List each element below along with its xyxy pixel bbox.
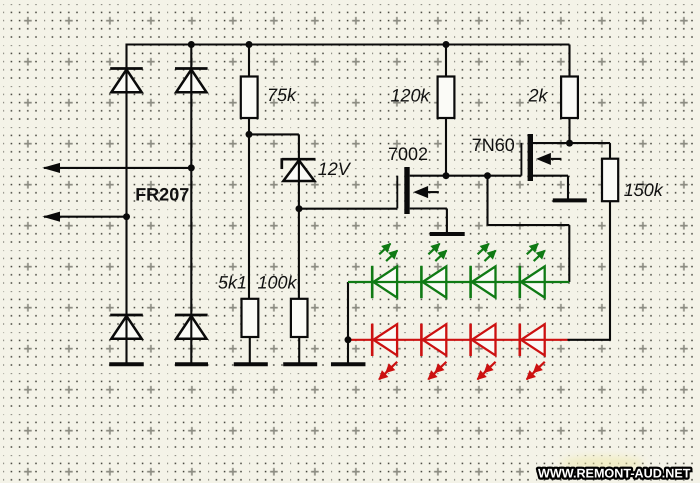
svg-text:12V: 12V [318,159,352,179]
svg-text:2k: 2k [528,86,549,106]
svg-text:120k: 120k [391,86,431,106]
svg-text:WWW.REMONT-AUD.NET: WWW.REMONT-AUD.NET [538,467,691,481]
svg-text:150k: 150k [624,180,664,200]
svg-text:7N60: 7N60 [472,135,515,155]
svg-text:7002: 7002 [388,144,428,164]
svg-text:FR207: FR207 [135,185,189,205]
svg-text:100k: 100k [258,273,298,293]
svg-text:5k1: 5k1 [218,273,247,293]
svg-text:75k: 75k [267,85,297,105]
